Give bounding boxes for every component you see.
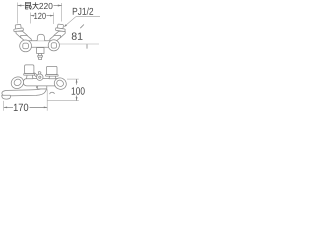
dimension 最大220 extension line right <box>61 3 63 22</box>
dimension 最大220 extension line left <box>17 3 19 24</box>
right valve bonnet (front) <box>49 76 56 79</box>
dimension 81 bottom extension line <box>60 43 100 45</box>
hidden wing arc left <box>36 84 40 88</box>
text 最大 (hand-drawn kanji strokes) <box>25 2 39 9</box>
right elbow pipe (staircase band 2) <box>50 36 61 42</box>
wall union left (hat) <box>13 24 23 32</box>
dimension 170 right extension line <box>46 89 48 110</box>
hidden wing arc right <box>50 92 55 94</box>
spout tip outlet <box>2 95 11 99</box>
dimension 120 extension line left <box>30 13 32 24</box>
left handle cup <box>25 65 34 74</box>
left handle wing ring <box>9 75 25 91</box>
left valve bonnet circle <box>20 40 32 52</box>
text 170 <box>14 104 28 111</box>
text PJ1/2 <box>73 8 93 15</box>
right handle wing ring <box>52 76 68 92</box>
body tube (top view arms) <box>25 41 53 48</box>
center cap circle <box>37 74 43 80</box>
center handle small wing top <box>38 72 41 75</box>
dimension 100 bottom extension line <box>47 100 79 102</box>
text 81 <box>72 32 83 39</box>
right valve bonnet circle <box>48 40 59 51</box>
dimension 81 tick bottom <box>86 44 88 48</box>
dimension line 120 with arrows <box>31 15 54 17</box>
text 100 <box>72 87 85 94</box>
text 120 <box>34 13 46 19</box>
dimension 81 oblique tick top <box>80 25 84 29</box>
leader line PJ1/2 <box>65 17 100 27</box>
left elbow pipe (staircase band 2) <box>21 36 32 42</box>
body tube (front) <box>23 79 58 86</box>
wall union right (hat) <box>55 24 65 32</box>
dimension 120 extension line right <box>53 13 55 25</box>
center handle small wing left <box>34 73 37 77</box>
left elbow pipe (staircase band 1) <box>16 31 27 37</box>
dimension 100 top extension line <box>67 78 79 80</box>
spout stub end flange (top view) <box>38 56 43 58</box>
dimension line 最大220 with arrows <box>18 5 62 7</box>
dimension 170 left extension line <box>3 101 5 111</box>
text 220 <box>39 3 52 9</box>
dimension line 170 with arrows <box>4 107 48 109</box>
spout stub (top view) <box>39 54 42 60</box>
right handle cup <box>47 66 58 74</box>
spout swivel housing (top view) <box>37 48 44 54</box>
right elbow pipe (staircase band 1) <box>54 31 65 37</box>
left valve bonnet (front) <box>27 75 33 79</box>
spout tube <box>2 89 47 96</box>
leader arrowhead <box>64 24 67 27</box>
center dome (spout rest) <box>37 34 46 40</box>
dimension line 100 with arrows <box>76 79 78 101</box>
spout nut under body <box>38 86 47 89</box>
